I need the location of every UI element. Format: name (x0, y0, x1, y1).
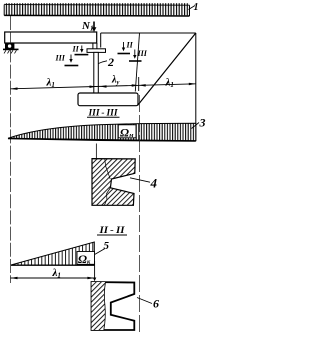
svg-text:2: 2 (107, 55, 114, 69)
section 6 (92, 282, 135, 330)
column stub under beam (93, 43, 97, 49)
short vertical at beam right (100, 33, 102, 48)
load axis arrow onto section 6 (93, 261, 96, 281)
Omega_k box (77, 252, 95, 267)
leader to label 1 (189, 6, 196, 10)
column capital plate (87, 49, 106, 53)
section III mark left (55, 54, 79, 66)
dimension line row4 (11, 277, 95, 280)
left axis (dash-dot) (10, 16, 12, 283)
svg-text:3: 3 (199, 116, 206, 130)
long centre axis line (139, 95, 141, 334)
top fixed slab (element 1) hatched band (4, 3, 189, 16)
beam (5, 32, 97, 43)
ceiling soffit line right (101, 32, 196, 34)
svg-text:III: III (55, 54, 66, 63)
left roller support (3, 43, 19, 53)
leader to label 5 (95, 249, 105, 255)
Omega_II triangle diagram (element 5) (11, 242, 94, 265)
label II-II (97, 226, 127, 236)
svg-text:4: 4 (150, 175, 158, 190)
section II mark left (72, 45, 89, 55)
Omega_III diagram (element 3) (8, 123, 196, 141)
svg-text:III: III (137, 49, 148, 58)
leader to label 2 (99, 61, 108, 64)
leader to label 3 (192, 123, 200, 129)
dimension line row1 (11, 77, 196, 91)
axis dash between omega and section 4 (95, 144, 97, 159)
label III-III (87, 109, 120, 119)
big diagonal (138, 33, 196, 106)
section 4 (hatched) (92, 159, 135, 206)
Omega_m box (118, 125, 136, 140)
svg-text:5: 5 (104, 240, 110, 252)
svg-text:II: II (126, 41, 134, 50)
svg-text:II: II (72, 45, 80, 54)
svg-text:6: 6 (153, 297, 159, 311)
right wall edge (195, 33, 197, 141)
section II mark right (118, 41, 134, 54)
leader to label 6 (137, 298, 152, 304)
foundation slab (78, 93, 138, 106)
section III mark right (129, 49, 148, 61)
column (element 2) (94, 52, 99, 93)
near-vertical zone edge (135, 33, 139, 92)
svg-text:1: 1 (194, 2, 199, 13)
leader to label 4 (130, 178, 150, 182)
load N1 (81, 20, 96, 33)
